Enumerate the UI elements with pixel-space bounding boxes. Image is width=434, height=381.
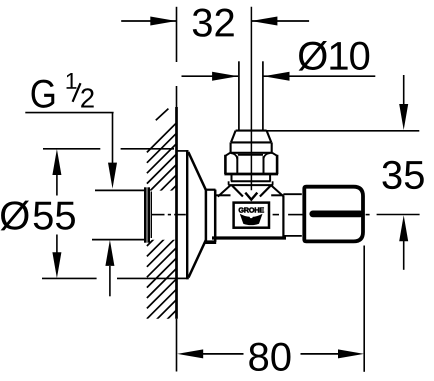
node: vertical centerline of riser pipe <box>250 7 252 191</box>
label 32 <box>193 8 234 36</box>
body shoulder slant right <box>271 185 284 197</box>
thread shoulder double ring <box>145 187 151 242</box>
handle outline <box>304 187 363 242</box>
handle groove bar <box>313 210 360 217</box>
wire: dim line diameter 10 left arrow <box>182 72 239 81</box>
label 80 <box>249 343 290 371</box>
logo box <box>234 203 269 228</box>
funnel inner V <box>245 193 257 200</box>
compression ring <box>230 142 272 152</box>
thread G1/2 male inlet bottom edge <box>92 239 146 241</box>
logo bowl icon <box>240 214 263 225</box>
funnel slant left <box>232 185 243 196</box>
nut lower neck <box>231 174 271 181</box>
wire: top dim 32 dimension line left part <box>121 17 176 26</box>
wire: dim 35 top arrow <box>399 75 408 130</box>
node: horizontal centerline of valve axis <box>152 214 370 216</box>
flange escutcheon plate bottom edge <box>177 277 189 279</box>
label diameter 55 <box>1 201 75 231</box>
wall: tiled wall surface thick line <box>175 107 178 319</box>
compression hex nut <box>224 153 278 174</box>
flange escutcheon plate top edge <box>177 150 189 152</box>
wire: dim 35 upper extension line <box>267 130 420 132</box>
wire: dim 80 right extension line from handle <box>363 246 365 372</box>
wire: G 1/2 opposing arrow at thread bottom <box>105 240 114 296</box>
flange cone lower slant <box>189 240 206 277</box>
wire: diameter 55 upper extension line <box>43 148 174 150</box>
wire: diameter 55 lower extension line <box>42 277 177 279</box>
wire: diameter 55 dimension line with outward arrows <box>52 149 61 278</box>
wire: dim 35 bottom arrow <box>399 215 408 270</box>
wall hatching <box>147 123 177 340</box>
wire: extension line wall face top <box>176 7 178 62</box>
valve body right end <box>282 195 284 237</box>
wire: G 1/2 leader vertical with arrow to thread top <box>108 113 117 189</box>
funnel slant right <box>260 185 271 196</box>
label GROHE <box>239 207 264 212</box>
outlet neck top edge <box>283 193 301 195</box>
riser pipe wall left <box>238 61 240 130</box>
wire: dim line diameter 10 right arrow <box>264 72 376 81</box>
valve body top edge right segment <box>271 194 283 196</box>
wire: dim 80 dimension line left arrow <box>177 349 243 358</box>
label diameter 10 <box>299 41 370 71</box>
wire: top dim 32 dimension line right part <box>251 17 309 26</box>
valve body bottom edge <box>212 236 286 239</box>
outlet neck bottom edge <box>283 235 301 237</box>
thread G1/2 male inlet top edge <box>95 189 146 191</box>
valve body top edge left segment <box>215 194 231 196</box>
wire: extension line wall face bottom <box>176 319 178 372</box>
compression cone top <box>231 131 271 143</box>
flange cone upper slant <box>188 152 206 190</box>
riser pipe wall right <box>262 61 264 130</box>
flange collar ring <box>205 189 217 242</box>
wire: dim 35 lower extension line <box>377 214 420 216</box>
body shoulder slant left <box>218 185 231 197</box>
label G 1/2 <box>32 73 94 108</box>
label 35 <box>382 161 423 189</box>
wire: dim 80 dimension line right arrow <box>301 349 365 358</box>
flange escutcheon front face <box>186 150 188 279</box>
wire: G 1/2 leader underline <box>25 112 113 114</box>
body top ring <box>228 181 273 185</box>
